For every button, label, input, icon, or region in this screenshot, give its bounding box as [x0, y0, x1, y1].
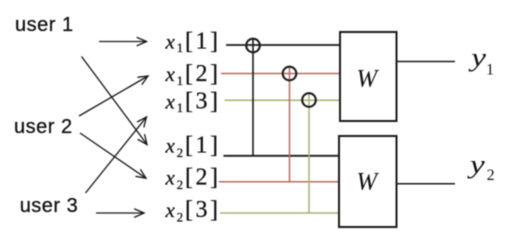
svg-text:x: x [165, 89, 176, 113]
svg-text:2: 2 [487, 167, 495, 184]
svg-text:[1]: [1] [185, 28, 220, 54]
svg-text:[2]: [2] [185, 61, 220, 87]
svg-text:x: x [165, 165, 176, 189]
svg-text:W: W [356, 66, 379, 93]
svg-text:x: x [165, 198, 176, 222]
svg-text:2: 2 [177, 177, 184, 192]
svg-text:[1]: [1] [185, 132, 220, 158]
svg-text:1: 1 [177, 40, 184, 55]
svg-text:[2]: [2] [185, 164, 220, 190]
svg-text:user 1: user 1 [15, 14, 74, 36]
svg-text:y: y [467, 150, 486, 179]
svg-text:x: x [165, 133, 176, 157]
svg-text:2: 2 [177, 145, 184, 160]
svg-text:1: 1 [486, 62, 494, 79]
svg-text:[3]: [3] [185, 88, 220, 114]
svg-text:x: x [165, 62, 176, 86]
svg-text:user 2: user 2 [14, 116, 73, 138]
svg-text:1: 1 [177, 73, 184, 88]
svg-text:[3]: [3] [185, 197, 220, 223]
svg-text:W: W [356, 168, 379, 195]
svg-text:1: 1 [177, 100, 184, 115]
svg-text:y: y [468, 43, 487, 72]
svg-text:2: 2 [177, 209, 184, 224]
svg-text:x: x [165, 29, 176, 53]
svg-text:user 3: user 3 [20, 195, 79, 217]
